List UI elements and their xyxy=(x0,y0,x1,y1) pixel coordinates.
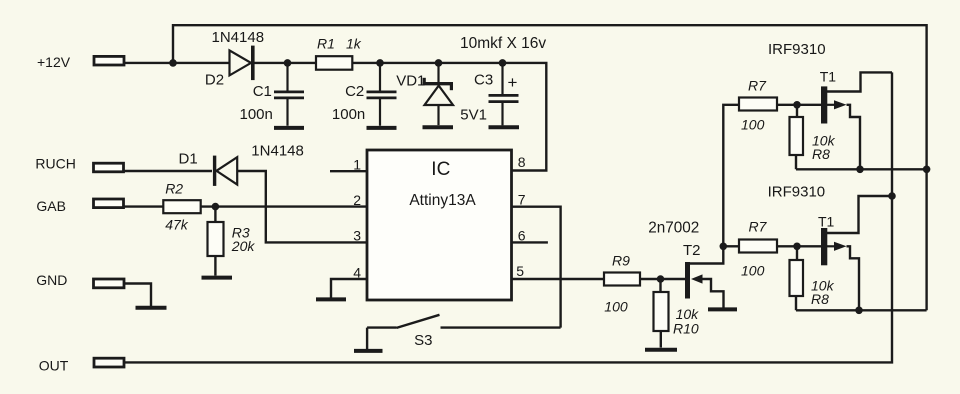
wire R8b leads xyxy=(796,246,797,310)
svg-text:10mkf X 16v: 10mkf X 16v xyxy=(460,35,546,52)
ground C3 xyxy=(489,125,520,129)
svg-text:IC: IC xyxy=(431,159,450,180)
diode D2 xyxy=(230,46,253,81)
svg-text:C3: C3 xyxy=(474,72,493,89)
switch S3 xyxy=(367,315,560,349)
svg-text:100: 100 xyxy=(741,117,765,133)
svg-text:100n: 100n xyxy=(332,106,365,123)
svg-text:1k: 1k xyxy=(346,36,362,52)
svg-text:1: 1 xyxy=(353,156,361,172)
ground C1 xyxy=(274,126,304,130)
wire D2 to R1 xyxy=(255,62,317,64)
wire OUT bus xyxy=(124,72,892,362)
resistor R7 top xyxy=(739,98,777,111)
ground S3 xyxy=(354,349,383,353)
zener VD1 xyxy=(423,63,454,125)
junction T1a source xyxy=(856,166,864,174)
capacitor C3 xyxy=(489,63,519,126)
connector RUCH xyxy=(94,163,124,172)
svg-text:5V1: 5V1 xyxy=(460,107,487,124)
svg-text:20k: 20k xyxy=(231,238,256,254)
wire T1b drain to OUT bus xyxy=(827,196,892,233)
svg-text:100n: 100n xyxy=(240,106,273,123)
pin 5 wire to R9 xyxy=(512,278,605,280)
svg-text:T2: T2 xyxy=(683,242,701,259)
svg-text:VD1: VD1 xyxy=(396,73,425,90)
capacitor C2 xyxy=(367,63,397,126)
junction C1 xyxy=(284,59,292,67)
junction T1b drain OUT bus xyxy=(888,192,896,200)
svg-text:R1: R1 xyxy=(317,36,335,52)
svg-text:3: 3 xyxy=(353,227,361,243)
wire R7b to T1b gate xyxy=(777,245,821,247)
resistor R9 xyxy=(604,273,640,286)
svg-text:D1: D1 xyxy=(179,150,198,167)
junction T1b source xyxy=(855,307,863,315)
wire T1b source path xyxy=(847,246,860,310)
wire R7b left lead xyxy=(723,245,739,247)
diode D1 xyxy=(215,156,238,186)
ground C2 xyxy=(367,126,397,130)
transistor T2 xyxy=(685,262,703,299)
svg-text:10k: 10k xyxy=(676,306,700,322)
ground R3 xyxy=(202,276,233,280)
wire +12V input xyxy=(124,62,230,64)
junction C3 xyxy=(499,59,507,67)
wire R9 to T2 gate xyxy=(640,278,685,280)
resistor R1 xyxy=(316,56,352,69)
transistor T1 top xyxy=(821,86,847,123)
resistor R3 xyxy=(208,222,224,256)
wire R7a to T1a gate xyxy=(777,104,821,106)
svg-text:R10: R10 xyxy=(673,321,699,337)
junction R9 R10 node xyxy=(657,275,665,283)
wire RUCH input xyxy=(124,170,212,172)
wire +12V top bus xyxy=(173,25,927,310)
ground pin 4 xyxy=(316,297,346,301)
junction C2 xyxy=(376,59,384,67)
svg-text:T1: T1 xyxy=(818,214,835,230)
svg-text:R9: R9 xyxy=(612,253,630,269)
ground T2 source xyxy=(708,307,737,311)
junction R7a R8a node xyxy=(793,101,801,109)
pin 4 wire to ground xyxy=(331,279,367,298)
junction source rail +12V bus xyxy=(923,166,931,174)
wire D1 anode to pin 3 xyxy=(237,171,367,242)
wire T1a drain to OUT bus xyxy=(827,72,892,91)
svg-text:1N4148: 1N4148 xyxy=(251,142,304,159)
svg-text:47k: 47k xyxy=(165,217,189,233)
svg-text:IRF9310: IRF9310 xyxy=(768,184,826,201)
wire T1b source rail xyxy=(796,309,927,311)
connector GAB xyxy=(94,199,124,208)
junction T2 drain bus xyxy=(720,243,728,251)
wire GAB to R2 xyxy=(124,205,163,207)
svg-text:6: 6 xyxy=(518,227,526,243)
wire R2 to pin 2 xyxy=(201,205,367,207)
svg-text:100: 100 xyxy=(604,298,628,314)
svg-text:+: + xyxy=(508,73,518,92)
junction VD1 xyxy=(435,59,443,67)
IC Attiny13A box xyxy=(367,150,512,300)
svg-text:2: 2 xyxy=(353,192,361,208)
svg-text:S3: S3 xyxy=(414,332,432,349)
svg-text:4: 4 xyxy=(353,265,361,281)
resistor R8 top xyxy=(790,117,804,155)
junction R7b R8b node xyxy=(793,243,801,251)
resistor R10 xyxy=(654,292,669,331)
connector +12V xyxy=(94,56,124,65)
svg-text:R7: R7 xyxy=(749,219,768,235)
svg-text:5: 5 xyxy=(516,263,524,279)
svg-text:D2: D2 xyxy=(205,72,224,89)
svg-text:RUCH: RUCH xyxy=(35,155,75,171)
svg-text:GND: GND xyxy=(36,272,67,288)
wire 5V rail R1 to pin 8 corner xyxy=(352,63,546,171)
svg-text:R2: R2 xyxy=(165,181,183,197)
wire R10 leads xyxy=(659,279,662,348)
wire T1a source rail xyxy=(796,168,927,170)
connector GND xyxy=(94,279,125,288)
resistor R2 xyxy=(163,200,200,213)
resistor R8 bottom xyxy=(790,260,804,296)
resistor R7 bottom xyxy=(739,240,777,253)
svg-text:2n7002: 2n7002 xyxy=(648,220,699,237)
pin 6 wire stub xyxy=(512,241,548,243)
junction +12V node xyxy=(169,59,177,67)
wire GND input xyxy=(124,284,151,307)
svg-text:C2: C2 xyxy=(345,83,364,100)
svg-text:R8: R8 xyxy=(812,146,830,162)
svg-text:8: 8 xyxy=(518,154,526,170)
ground VD1 xyxy=(423,125,454,129)
wire T1a source path xyxy=(847,105,861,170)
ground GND connector xyxy=(136,306,167,310)
pin 1 wire xyxy=(330,170,367,172)
wire R3 leads xyxy=(214,207,216,276)
svg-text:C1: C1 xyxy=(253,83,272,100)
svg-text:IRF9310: IRF9310 xyxy=(768,41,826,58)
ground R10 xyxy=(645,348,677,352)
wire T2 source to ground xyxy=(703,279,724,308)
svg-text:R7: R7 xyxy=(748,78,767,94)
svg-text:OUT: OUT xyxy=(39,357,69,373)
svg-text:Attiny13A: Attiny13A xyxy=(409,192,476,209)
wire R8a leads xyxy=(796,105,797,170)
svg-text:GAB: GAB xyxy=(36,198,66,214)
transistor T1 bottom xyxy=(821,228,847,265)
svg-text:T1: T1 xyxy=(820,68,837,84)
svg-text:100: 100 xyxy=(741,263,765,279)
svg-text:R8: R8 xyxy=(811,291,829,307)
svg-text:7: 7 xyxy=(518,192,526,208)
connector OUT xyxy=(94,358,124,367)
pin 7 wire to S3 xyxy=(512,207,561,328)
junction R2 R3 node xyxy=(212,203,220,211)
capacitor C1 xyxy=(274,63,304,126)
wire T2 drain to R7 bus xyxy=(690,105,739,264)
svg-text:+12V: +12V xyxy=(37,54,71,70)
svg-text:1N4148: 1N4148 xyxy=(212,29,265,46)
